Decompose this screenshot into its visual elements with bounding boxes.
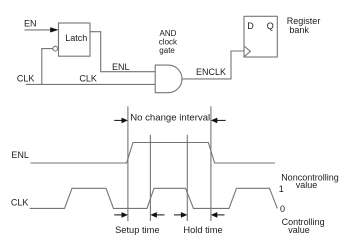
svg-text:ENL: ENL <box>11 150 29 160</box>
svg-text:Setup time: Setup time <box>115 225 159 235</box>
svg-text:bank: bank <box>289 25 309 35</box>
setup-time left arrow <box>114 212 128 218</box>
wire CLK <box>26 83 155 85</box>
inverter bubble on latch clock input <box>53 46 58 51</box>
no-change-interval left arrow <box>114 118 128 124</box>
hold-time right arrow <box>211 212 225 218</box>
wire latch clock input <box>42 49 53 85</box>
svg-text:0: 0 <box>280 204 285 214</box>
arrowhead EN into latch <box>50 27 58 32</box>
svg-text:CLK: CLK <box>11 198 29 208</box>
svg-text:CLK: CLK <box>79 73 97 83</box>
svg-text:Q: Q <box>267 21 274 31</box>
and-gate U2 <box>155 65 182 93</box>
reference line t3 CLK fall <box>186 135 188 221</box>
register bank U3 <box>244 16 277 57</box>
svg-text:ENL: ENL <box>112 62 130 72</box>
svg-text:Latch: Latch <box>65 33 87 43</box>
svg-text:ENCLK: ENCLK <box>196 67 226 77</box>
register clock input triangle <box>244 46 250 57</box>
wire ENCLK <box>182 51 244 79</box>
reference line t1 ENL rise <box>127 106 129 221</box>
latch U1 <box>59 23 91 56</box>
setup-time right arrow <box>150 212 164 218</box>
ENL waveform <box>31 143 276 164</box>
svg-text:value: value <box>288 225 310 235</box>
svg-text:Hold time: Hold time <box>183 225 222 235</box>
svg-text:No change interval: No change interval <box>130 113 210 124</box>
wire EN input <box>25 29 52 31</box>
reference line t4 ENL fall <box>210 106 212 221</box>
wire latch output ENL <box>90 32 155 72</box>
svg-text:D: D <box>247 21 254 31</box>
CLK waveform <box>30 188 278 208</box>
svg-text:value: value <box>296 180 318 190</box>
svg-text:gate: gate <box>159 46 175 55</box>
svg-text:CLK: CLK <box>17 73 35 83</box>
svg-text:clock: clock <box>159 37 178 46</box>
svg-text:EN: EN <box>24 18 37 28</box>
reference line t2 CLK rise <box>149 135 151 221</box>
no-change-interval right arrow <box>211 118 226 124</box>
hold-time left arrow <box>174 212 187 218</box>
svg-text:1: 1 <box>279 184 284 194</box>
